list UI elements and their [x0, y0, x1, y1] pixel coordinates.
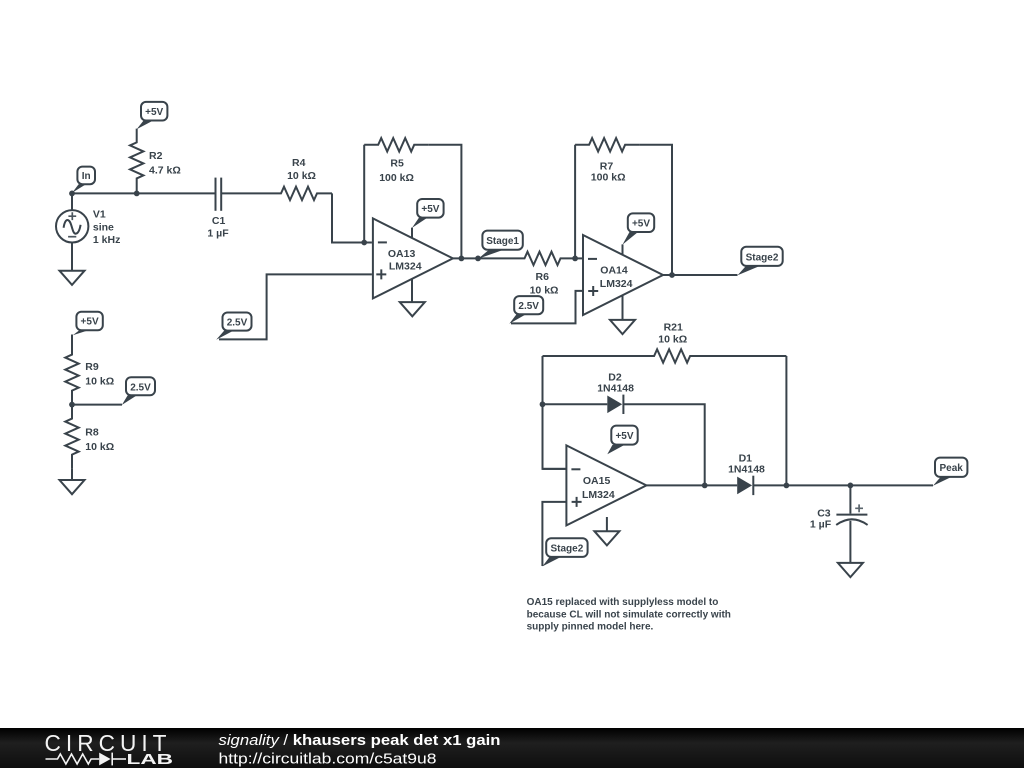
wire: R8 to ground — [71, 468, 73, 480]
op-amp OA15 LM324 — [566, 445, 646, 525]
wire: tap to 2.5V flag — [72, 404, 122, 406]
ground (OA15) — [594, 531, 619, 545]
svg-text:R5: R5 — [390, 158, 404, 170]
OA15 V- pin (floating) — [606, 517, 608, 531]
node: junction dot OA14 in- — [572, 256, 578, 262]
op-amp OA14 LM324 — [583, 235, 663, 315]
svg-text:Stage2: Stage2 — [746, 252, 779, 263]
wire: R7 to OA14 output — [639, 145, 672, 275]
OA14 V- pin — [622, 295, 624, 320]
svg-text:100 kΩ: 100 kΩ — [591, 172, 626, 184]
power flag +5V (OA13 V+) — [412, 199, 444, 238]
node: junction dot C3 tap — [848, 483, 854, 489]
svg-text:2.5V: 2.5V — [130, 382, 151, 393]
svg-text:http://circuitlab.com/c5at9u8: http://circuitlab.com/c5at9u8 — [219, 750, 437, 767]
node: junction dot 2.5V tap — [69, 402, 75, 408]
node: junction dot D2 return — [702, 483, 708, 489]
voltage source V1 sine 1 kHz — [56, 193, 120, 270]
node: junction dot R2/main wire — [134, 191, 140, 197]
svg-text:+5V: +5V — [632, 218, 650, 229]
power flag +5V (OA15 V+, floating) — [607, 426, 637, 455]
svg-text:+5V: +5V — [145, 107, 163, 118]
svg-text:R6: R6 — [536, 271, 550, 283]
svg-text:1N4148: 1N4148 — [597, 383, 634, 395]
wire: OA15 + input from Stage2 — [542, 502, 566, 566]
ground (OA13) — [400, 302, 425, 316]
FOOTER — [0, 728, 1024, 768]
svg-text:1N4148: 1N4148 — [728, 463, 765, 475]
node: junction dot OA14 out — [669, 272, 675, 278]
wire: R7 feedback left vertical — [574, 145, 576, 259]
wire: R21 feedback left vertical — [543, 356, 567, 469]
OA13 V- pin — [411, 279, 413, 302]
svg-text:C1: C1 — [212, 215, 226, 227]
resistor R4 10 kOhm — [268, 157, 332, 200]
wire: In node to C1 — [72, 192, 215, 194]
node: junction dot R21 return — [784, 483, 790, 489]
resistor R5 100 kOhm — [364, 138, 428, 184]
svg-text:1 µF: 1 µF — [810, 519, 832, 531]
wire: OA14 + input from 2.5V — [511, 291, 583, 324]
wire: R4 to OA13 inverting input — [332, 193, 372, 242]
svg-text:OA15 replaced with supplyless: OA15 replaced with supplyless model to — [527, 597, 719, 608]
svg-text:because CL will not simulate c: because CL will not simulate correctly w… — [527, 610, 731, 621]
svg-text:V1: V1 — [93, 209, 106, 221]
net flag Peak — [933, 458, 967, 486]
net flag 2.5V (divider) — [122, 377, 155, 405]
svg-text:10 kΩ: 10 kΩ — [85, 441, 114, 453]
capacitor C1 1 uF — [207, 178, 229, 240]
svg-text:2.5V: 2.5V — [227, 318, 248, 329]
svg-text:1 µF: 1 µF — [207, 228, 229, 240]
wire: C1 to R4 — [222, 192, 268, 194]
node: junction dot D2 branch — [540, 401, 546, 407]
svg-text:100 kΩ: 100 kΩ — [379, 172, 414, 184]
svg-text:signality / khausers peak det: signality / khausers peak det x1 gain — [219, 733, 501, 749]
logo wordmark CIRCUIT — [45, 730, 172, 756]
resistor R21 10 kOhm — [543, 321, 787, 362]
wire: OA13 output to R6 — [453, 257, 511, 259]
wire: R5 to OA13 output — [428, 145, 461, 259]
net flag 2.5V (OA14 +) — [509, 296, 543, 324]
svg-text:R2: R2 — [149, 150, 163, 162]
wire: D2 anode — [543, 403, 608, 405]
svg-text:2.5V: 2.5V — [518, 301, 539, 312]
ground (V1) — [60, 271, 85, 285]
footer url — [219, 750, 437, 767]
power flag +5V (OA14 V+) — [623, 213, 655, 254]
ground (C3) — [838, 563, 863, 577]
diode D2 1N4148 — [597, 372, 634, 415]
wire: R6 to OA14 in- — [575, 257, 584, 259]
svg-text:R4: R4 — [292, 157, 306, 169]
diode D1 1N4148 — [728, 452, 765, 495]
wire: D1 to Peak — [753, 484, 933, 486]
wire: R21 right vertical — [785, 356, 787, 485]
ground (OA14) — [610, 320, 635, 334]
logo wordmark LAB — [127, 752, 174, 768]
svg-text:R9: R9 — [85, 361, 99, 373]
wire: OA13 + input from 2.5V — [219, 274, 372, 339]
power flag +5V (R2 top) — [137, 102, 168, 129]
wire: D2 cathode to output — [623, 404, 704, 485]
svg-text:In: In — [82, 171, 91, 182]
op-amp OA13 LM324 — [373, 218, 453, 298]
svg-text:10 kΩ: 10 kΩ — [287, 170, 316, 182]
svg-text:R7: R7 — [600, 160, 614, 172]
resistor R9 10 kOhm — [65, 335, 114, 405]
svg-text:R8: R8 — [85, 427, 99, 439]
wire: OA14 output to Stage2 — [663, 274, 738, 276]
capacitor C3 1 uF (polarized) — [810, 485, 868, 563]
footer title — [219, 733, 501, 749]
svg-text:LAB: LAB — [127, 752, 174, 768]
svg-text:Stage2: Stage2 — [551, 544, 584, 555]
resistor R2 4.7 kOhm — [130, 129, 181, 194]
ground (R8) — [60, 480, 85, 494]
svg-text:sine: sine — [93, 222, 114, 234]
wire: R5 feedback left vertical — [363, 145, 365, 243]
svg-text:+5V: +5V — [81, 317, 99, 328]
logo resistor-diode squiggle — [46, 753, 127, 766]
annotation note — [527, 597, 731, 633]
net flag Stage2 (OA14 out) — [738, 247, 783, 275]
resistor R6 10 kOhm — [511, 252, 575, 297]
node: junction dot OA13 in- — [361, 240, 367, 246]
svg-text:10 kΩ: 10 kΩ — [658, 334, 687, 346]
svg-text:LM324: LM324 — [582, 489, 615, 501]
svg-text:10 kΩ: 10 kΩ — [85, 376, 114, 388]
node: junction dot R5/output — [459, 256, 465, 262]
svg-text:Peak: Peak — [940, 463, 964, 474]
svg-text:LM324: LM324 — [600, 278, 633, 290]
wire: OA13 in- feedback horizontal — [543, 468, 567, 470]
svg-text:Stage1: Stage1 — [486, 236, 519, 247]
svg-text:OA15: OA15 — [583, 475, 611, 487]
svg-text:4.7 kΩ: 4.7 kΩ — [149, 165, 181, 177]
net flag Stage1 — [478, 231, 523, 259]
svg-text:+5V: +5V — [421, 204, 439, 215]
svg-text:OA14: OA14 — [600, 265, 628, 277]
svg-text:LM324: LM324 — [389, 261, 422, 273]
node: junction dot In/V1 — [69, 191, 75, 197]
resistor R7 100 kOhm — [575, 138, 639, 184]
svg-text:OA13: OA13 — [388, 248, 416, 260]
resistor R8 10 kOhm — [65, 405, 114, 469]
svg-text:1 kHz: 1 kHz — [93, 234, 120, 246]
svg-text:10 kΩ: 10 kΩ — [530, 284, 559, 296]
svg-text:supply pinned model here.: supply pinned model here. — [527, 622, 654, 633]
node: junction dot Stage1 attach — [475, 256, 481, 262]
net flag In — [72, 167, 95, 193]
net flag Stage2 (OA15 +) — [542, 538, 587, 566]
power flag +5V (R9 top) — [73, 312, 103, 336]
net flag 2.5V (OA13 +) — [216, 313, 251, 340]
svg-text:+5V: +5V — [615, 431, 633, 442]
wire: OA15 output to D1 — [646, 484, 737, 486]
svg-text:R21: R21 — [664, 321, 683, 333]
